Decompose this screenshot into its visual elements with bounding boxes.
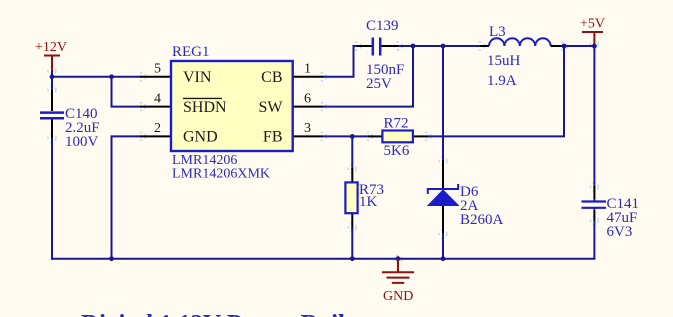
node junction +5V bbox=[592, 44, 597, 49]
resistor R73 bbox=[345, 168, 357, 230]
wire C141 to bottom rail bbox=[593, 220, 595, 260]
svg-text:1.9A: 1.9A bbox=[487, 73, 517, 89]
power +12V bbox=[44, 56, 60, 73]
wire SW rail top bbox=[398, 45, 489, 47]
node junction at +12V bbox=[50, 74, 55, 79]
capacitor C140 bbox=[40, 90, 64, 138]
resistor R72 bbox=[368, 131, 428, 143]
node junction R73 bottom bbox=[350, 256, 355, 261]
wire +12V stem to rail bbox=[51, 71, 53, 77]
svg-text:Digital 1 12V Power Rail: Digital 1 12V Power Rail bbox=[81, 309, 345, 317]
wire SHDN link horizontal bbox=[111, 106, 142, 108]
capacitor C141 bbox=[582, 186, 607, 222]
regulator REG1 pins right (1,6,3) bbox=[293, 77, 324, 137]
node junction D6 bottom bbox=[441, 256, 446, 261]
capacitor C139 bbox=[357, 38, 399, 56]
svg-text:SW: SW bbox=[259, 99, 284, 116]
wire D6 to bottom rail bbox=[442, 233, 444, 259]
node junction ground stem bbox=[396, 256, 401, 261]
svg-text:15uH: 15uH bbox=[487, 53, 521, 69]
connection markers (pale) bbox=[48, 40, 598, 264]
svg-text:CB: CB bbox=[261, 69, 282, 86]
svg-text:2: 2 bbox=[154, 121, 161, 136]
node junction GND pin2 / bottom rail bbox=[109, 256, 114, 261]
node junction FB feedback riser bbox=[562, 44, 567, 49]
wire FB horizontal bbox=[427, 135, 565, 137]
ground bbox=[382, 259, 414, 283]
svg-text:VIN: VIN bbox=[183, 69, 212, 86]
diode D6 bbox=[428, 99, 459, 235]
svg-text:5: 5 bbox=[154, 62, 161, 77]
svg-text:3: 3 bbox=[304, 121, 311, 136]
wire D6 riser bbox=[442, 46, 444, 162]
wire R73 to bottom rail bbox=[351, 228, 353, 259]
svg-text:SHDN: SHDN bbox=[183, 99, 227, 116]
wire GND pin2 horizontal bbox=[112, 135, 142, 137]
svg-text:C139: C139 bbox=[366, 18, 399, 34]
label C140 value bbox=[65, 106, 100, 150]
regulator REG1 pins left (5,4,2) bbox=[140, 77, 171, 137]
svg-text:LMR14206XMK: LMR14206XMK bbox=[172, 167, 270, 182]
regulator REG1 body bbox=[171, 61, 293, 151]
node junction D6 riser bbox=[441, 44, 446, 49]
label L3 value bbox=[487, 24, 521, 89]
label C141 value bbox=[607, 196, 640, 240]
label D6 value bbox=[460, 184, 504, 228]
power +5V bbox=[582, 32, 603, 44]
inductor L3 bbox=[480, 38, 564, 46]
label C139 value bbox=[366, 18, 404, 92]
wire SHDN link vertical bbox=[111, 77, 113, 107]
wire bottom rail bbox=[51, 258, 595, 260]
svg-text:6V3: 6V3 bbox=[607, 224, 633, 240]
svg-text:R72: R72 bbox=[384, 116, 409, 132]
svg-text:25V: 25V bbox=[366, 76, 392, 92]
wire R73 riser bbox=[351, 136, 353, 170]
svg-text:L3: L3 bbox=[489, 24, 506, 40]
svg-text:FB: FB bbox=[263, 129, 283, 146]
wire CB pin1 to C139 bbox=[323, 46, 358, 77]
wire C141 riser bbox=[593, 46, 595, 188]
svg-text:1K: 1K bbox=[359, 194, 378, 210]
wire top-left rail bbox=[51, 76, 141, 78]
svg-text:+12V: +12V bbox=[35, 40, 67, 55]
svg-text:GND: GND bbox=[383, 289, 413, 304]
wire L3 to +5V bbox=[563, 45, 595, 47]
svg-text:6: 6 bbox=[304, 91, 311, 106]
wire FB riser bbox=[563, 46, 565, 136]
node junction R73 top bbox=[350, 134, 355, 139]
node junction SW riser bbox=[411, 44, 416, 49]
svg-text:B260A: B260A bbox=[460, 212, 504, 228]
wire C140 branch down bbox=[51, 77, 53, 111]
svg-text:+5V: +5V bbox=[580, 17, 605, 32]
pin name SHDN (with overline) bbox=[183, 98, 227, 116]
wire SW pin6 bbox=[323, 46, 413, 107]
svg-text:1: 1 bbox=[304, 62, 311, 77]
wire GND pin2 vertical down bbox=[111, 135, 113, 258]
wire C140 to bottom rail bbox=[51, 119, 53, 260]
svg-text:GND: GND bbox=[183, 129, 218, 146]
svg-text:4: 4 bbox=[154, 91, 161, 106]
svg-text:5K6: 5K6 bbox=[384, 143, 410, 159]
svg-text:100V: 100V bbox=[65, 134, 99, 150]
node junction VIN/SHDN bbox=[109, 74, 114, 79]
wire FB pin3 to R72 bbox=[323, 135, 369, 137]
svg-text:REG1: REG1 bbox=[172, 44, 210, 60]
